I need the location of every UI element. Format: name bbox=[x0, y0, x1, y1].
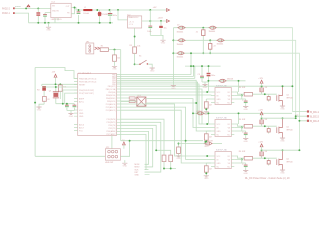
svg-text:PD1(TXD/PCINT): PD1(TXD/PCINT) bbox=[79, 93, 94, 95]
svg-text:+12V: +12V bbox=[258, 142, 263, 144]
svg-text:LM2576S-5: LM2576S-5 bbox=[51, 19, 63, 21]
junction bbox=[66, 103, 68, 105]
junction bbox=[261, 85, 263, 87]
wire to block3 pin2 bbox=[121, 107, 211, 159]
junction bbox=[185, 140, 187, 142]
svg-text:1N4004: 1N4004 bbox=[217, 44, 224, 46]
svg-text:10k: 10k bbox=[117, 58, 120, 60]
pad B_DC-2 bbox=[307, 115, 309, 117]
diode D6 bbox=[177, 52, 185, 55]
junction bbox=[134, 36, 136, 38]
gate zener small bbox=[268, 94, 270, 101]
junction bbox=[207, 112, 209, 114]
svg-text:R5: R5 bbox=[130, 45, 132, 47]
junction bbox=[25, 7, 27, 9]
svg-text:GND: GND bbox=[79, 116, 84, 118]
svg-text:100u: 100u bbox=[113, 15, 117, 17]
svg-text:RESET: RESET bbox=[79, 84, 86, 86]
resistor R9 bbox=[169, 155, 173, 161]
junction bbox=[207, 80, 209, 82]
ground bbox=[39, 104, 44, 106]
svg-text:1N4004: 1N4004 bbox=[177, 57, 184, 59]
svg-text:RL_DC Power Driver - Custom Se: RL_DC Power Driver - Custom Serie (c), 2… bbox=[245, 177, 290, 180]
wire row2 bbox=[173, 39, 240, 41]
resistor R4 bbox=[41, 84, 43, 86]
polarity mark bbox=[27, 5, 30, 7]
junction bbox=[264, 93, 266, 95]
supply +5V arrow up bbox=[123, 142, 126, 145]
junction bbox=[99, 22, 101, 24]
ground bbox=[122, 163, 127, 167]
junction bbox=[78, 9, 80, 11]
svg-text:PC1(ADC1): PC1(ADC1) bbox=[106, 106, 116, 109]
svg-text:GND/ON: GND/ON bbox=[52, 10, 60, 12]
svg-text:Z2: Z2 bbox=[214, 46, 216, 48]
svg-text:AREF: AREF bbox=[79, 97, 85, 100]
svg-text:1N4004: 1N4004 bbox=[209, 31, 216, 33]
wire VIN row bbox=[15, 7, 51, 9]
svg-text:R6 10R: R6 10R bbox=[239, 87, 246, 89]
junction bbox=[160, 20, 162, 22]
ground bbox=[150, 68, 155, 72]
svg-text:IRF540: IRF540 bbox=[286, 97, 292, 99]
diode D3 bbox=[209, 26, 217, 29]
junction bbox=[190, 52, 192, 54]
svg-text:PD7(AIN1): PD7(AIN1) bbox=[107, 133, 117, 136]
junction bbox=[172, 52, 174, 54]
junction bbox=[241, 95, 243, 97]
ground bbox=[68, 113, 73, 117]
cap electrolytic C10 bbox=[207, 73, 211, 77]
svg-text:PB1(OC1A): PB1(OC1A) bbox=[106, 88, 116, 91]
wire caps gnd bbox=[150, 35, 163, 39]
wire opto out2 to block2 pin3 bbox=[146, 103, 211, 131]
flyback diode vertical bbox=[261, 86, 263, 94]
svg-text:PB3(MOSI): PB3(MOSI) bbox=[106, 95, 116, 97]
svg-text:power: power bbox=[15, 5, 21, 8]
regulator IC4 box bbox=[51, 3, 71, 17]
crystal Q1 bbox=[42, 87, 78, 104]
wire upper pin row4 bbox=[121, 80, 197, 103]
capacitor C4 bbox=[109, 10, 111, 23]
capacitor C2 bbox=[45, 13, 51, 23]
junction bbox=[170, 168, 172, 170]
svg-text:Z1: Z1 bbox=[196, 31, 198, 33]
junction bbox=[195, 102, 197, 104]
junction bbox=[109, 9, 111, 11]
junction bbox=[62, 103, 64, 105]
resistor R2 bbox=[114, 50, 116, 55]
junction bbox=[172, 39, 174, 41]
wire ISP to reset bbox=[120, 141, 129, 157]
ground bbox=[112, 66, 117, 70]
diode D7 bbox=[186, 143, 205, 145]
ground bbox=[36, 107, 41, 111]
svg-text:AVR-ISP: AVR-ISP bbox=[105, 161, 114, 164]
pin labels left column bbox=[79, 77, 97, 132]
junction bbox=[78, 22, 80, 24]
wire to block1 pin1 bbox=[121, 91, 211, 93]
diode D10 bbox=[196, 112, 204, 115]
svg-text:PD5(T1): PD5(T1) bbox=[109, 128, 117, 130]
dc-dc bottom pin wire bbox=[134, 28, 136, 47]
resistor R10 + gnd bbox=[178, 144, 180, 148]
arrows bbox=[95, 47, 100, 50]
wire to block2 pin1 bbox=[121, 89, 211, 124]
wire to ISP row4 bbox=[121, 122, 161, 172]
junction bbox=[295, 117, 297, 119]
svg-text:PD0(RXD/PCINT): PD0(RXD/PCINT) bbox=[79, 90, 94, 92]
wire to R8 top bbox=[121, 119, 164, 155]
svg-text:R4: R4 bbox=[37, 89, 39, 91]
ground bbox=[204, 82, 206, 84]
wire to ISP row2 bbox=[121, 128, 153, 167]
svg-text:ADC6: ADC6 bbox=[79, 123, 84, 126]
svg-text:PC2(ADC2): PC2(ADC2) bbox=[106, 109, 116, 112]
gate wire + resistor bbox=[234, 92, 244, 94]
svg-text:out2: out2 bbox=[295, 113, 298, 116]
svg-text:Q1: Q1 bbox=[49, 90, 52, 92]
svg-text:+5V2: +5V2 bbox=[158, 17, 164, 19]
svg-text:100uH: 100uH bbox=[83, 13, 89, 15]
capacitor C9 bbox=[200, 76, 204, 78]
right pin stubs bbox=[117, 75, 121, 135]
junction bbox=[282, 85, 284, 87]
svg-text:IC1 MEGA8-P: IC1 MEGA8-P bbox=[78, 72, 92, 75]
right pin stubs bbox=[231, 92, 234, 103]
+12V arrow ch1 bbox=[260, 80, 263, 83]
svg-text:B_DC-3: B_DC-3 bbox=[310, 120, 319, 123]
svg-text:+12V: +12V bbox=[258, 110, 263, 112]
wire via node to R9 bbox=[121, 125, 171, 155]
junction bbox=[209, 52, 211, 54]
wire block1 aux diode row bbox=[208, 81, 245, 92]
ground bbox=[176, 156, 181, 160]
svg-text:PD4(T0): PD4(T0) bbox=[109, 125, 117, 127]
junction bbox=[298, 120, 300, 122]
svg-text:PB7(XTAL2/TOSC2): PB7(XTAL2/TOSC2) bbox=[79, 80, 97, 83]
junction bbox=[201, 65, 203, 67]
svg-text:+5V: +5V bbox=[153, 7, 157, 9]
diode D2 bbox=[177, 26, 185, 29]
pin labels right column bbox=[106, 74, 116, 136]
wire reset row bbox=[121, 140, 203, 142]
svg-text:PB0(ICP): PB0(ICP) bbox=[108, 86, 116, 88]
diode D1 bbox=[99, 10, 101, 23]
wire upper pin row2 bbox=[121, 66, 194, 76]
junction bbox=[163, 168, 165, 170]
svg-text:PD2(INT0): PD2(INT0) bbox=[107, 119, 116, 121]
svg-text:1N4004: 1N4004 bbox=[177, 44, 184, 46]
svg-text:GND: GND bbox=[79, 113, 84, 115]
junction bbox=[55, 83, 57, 85]
svg-text:PD3(INT1): PD3(INT1) bbox=[107, 122, 116, 124]
ground bbox=[243, 106, 248, 110]
wire OUT bbox=[71, 8, 83, 11]
wire ch1 +12V top rail bbox=[121, 85, 293, 87]
svg-text:PB5(SCK): PB5(SCK) bbox=[107, 101, 116, 103]
junction bbox=[205, 108, 207, 110]
junction bbox=[238, 80, 240, 82]
capacitors C6 C7 bbox=[56, 90, 78, 113]
svg-text:PAD2-2: PAD2-2 bbox=[2, 8, 11, 11]
svg-text:PC5: PC5 bbox=[79, 130, 83, 132]
wire upper pin row6 bbox=[121, 84, 202, 124]
+12V arrow ch2 bbox=[260, 112, 263, 115]
junction bbox=[34, 102, 36, 104]
wire to block3 pin1 bbox=[121, 100, 137, 102]
junction bbox=[117, 9, 119, 11]
svg-text:Q1: Q1 bbox=[286, 95, 289, 97]
svg-text:4k7: 4k7 bbox=[209, 105, 212, 107]
junction bbox=[37, 7, 39, 9]
junction bbox=[202, 52, 204, 54]
junction bbox=[192, 65, 194, 67]
wire to block3 pin3 bbox=[121, 110, 211, 163]
junction bbox=[44, 22, 46, 24]
svg-text:10u: 10u bbox=[164, 27, 167, 29]
junction bbox=[190, 65, 192, 67]
mosfet Q bbox=[277, 86, 283, 105]
svg-text:PB6(XTAL1/TOSC1): PB6(XTAL1/TOSC1) bbox=[79, 77, 97, 80]
svg-text:1N4148: 1N4148 bbox=[196, 111, 202, 113]
ground bbox=[202, 84, 207, 88]
junction bbox=[238, 112, 240, 114]
wire ch3 +12V rail bbox=[262, 149, 300, 151]
wire block2 aux diode row bbox=[193, 113, 292, 124]
inductor L1 bbox=[83, 9, 92, 11]
junction bbox=[204, 141, 206, 143]
wire to DC-DC bbox=[118, 10, 128, 20]
capacitor C1 bbox=[37, 8, 39, 22]
wire upper pin row3 bbox=[121, 66, 195, 78]
wire to ISP row1 bbox=[121, 131, 149, 164]
header JP2 AVR-ISP bbox=[105, 149, 120, 161]
junction bbox=[149, 9, 151, 11]
junction bbox=[298, 149, 300, 151]
wire reset down bbox=[120, 50, 122, 141]
junction bbox=[129, 140, 131, 142]
wire +5V rail top bbox=[92, 9, 166, 11]
ground bbox=[204, 112, 209, 116]
svg-text:10k: 10k bbox=[137, 45, 140, 47]
svg-text:ADC7: ADC7 bbox=[79, 126, 84, 129]
ground bbox=[48, 23, 50, 27]
ground bbox=[160, 40, 165, 44]
capacitor bbox=[245, 99, 247, 106]
wire FB bbox=[71, 8, 74, 14]
wire ch2 +12V rail bbox=[262, 117, 296, 119]
wire upper pin row1 bbox=[121, 53, 191, 74]
svg-text:C8: C8 bbox=[47, 99, 49, 101]
svg-text:PAD2-1: PAD2-1 bbox=[2, 12, 11, 15]
ground bbox=[46, 27, 51, 31]
ground bbox=[280, 106, 285, 110]
pad B_DC-1 bbox=[307, 110, 309, 112]
ground rail wire bbox=[29, 22, 114, 24]
svg-text:PD6(AIN0): PD6(AIN0) bbox=[107, 130, 117, 133]
junction bbox=[74, 7, 76, 9]
svg-text:C9: C9 bbox=[198, 74, 200, 76]
resistor left low bbox=[206, 99, 211, 102]
svg-text:1N4004: 1N4004 bbox=[177, 31, 184, 33]
capacitor C5 bbox=[149, 10, 151, 35]
wire row bbox=[42, 83, 78, 85]
regulator bottom pin wire bbox=[55, 18, 58, 23]
svg-text:PB2(SS): PB2(SS) bbox=[108, 92, 116, 94]
svg-text:PC0(ADC0): PC0(ADC0) bbox=[106, 103, 116, 106]
wire to block1 pin2 bbox=[121, 94, 211, 97]
wire upper pin row5 bbox=[121, 82, 198, 113]
capacitor C6 tantal bbox=[160, 21, 162, 35]
junction bbox=[48, 22, 50, 24]
header JP1 bbox=[86, 43, 94, 54]
dc-dc converter IC2 box bbox=[128, 16, 142, 28]
zener Z2 vertical bbox=[209, 39, 211, 41]
left pin stubs bbox=[74, 79, 78, 131]
svg-text:PB4(MISO): PB4(MISO) bbox=[106, 98, 116, 100]
svg-text:AVCC: AVCC bbox=[79, 100, 85, 103]
supply +5V arrow up bbox=[54, 74, 57, 77]
svg-text:D2: D2 bbox=[177, 25, 179, 27]
svg-text:IC3 TLP_GD: IC3 TLP_GD bbox=[216, 86, 227, 88]
supply +5V arrow bbox=[167, 9, 170, 12]
svg-text:GND: GND bbox=[135, 175, 140, 177]
zener vertical bbox=[202, 27, 204, 29]
junction bbox=[96, 9, 98, 11]
svg-text:B_DC-2: B_DC-2 bbox=[310, 116, 319, 119]
svg-text:+12V: +12V bbox=[258, 78, 263, 80]
junction bbox=[37, 22, 39, 24]
capacitor C8 bbox=[43, 91, 45, 105]
capacitor C3 bbox=[78, 10, 80, 23]
svg-text:100n: 100n bbox=[147, 31, 151, 33]
wire opto out to block2 pin2 bbox=[146, 99, 211, 128]
junction bbox=[208, 65, 210, 67]
left pin stubs bbox=[211, 92, 215, 103]
wire DC-DC out bbox=[142, 20, 167, 22]
wire row1 bbox=[173, 27, 240, 29]
junction bbox=[192, 112, 194, 114]
svg-text:GND: GND bbox=[217, 99, 222, 101]
svg-text:100u: 100u bbox=[211, 75, 215, 77]
pad B_DC-3 bbox=[307, 120, 309, 122]
junction bbox=[149, 20, 151, 22]
svg-text:VCC: VCC bbox=[79, 110, 84, 112]
ISP label rows bbox=[135, 164, 140, 176]
svg-text:D8: D8 bbox=[265, 87, 267, 89]
wire loop into ISP bbox=[35, 155, 105, 157]
resistor R3 bbox=[58, 85, 62, 91]
resistor R8 bbox=[162, 155, 166, 161]
junction bbox=[114, 49, 116, 51]
junction bbox=[206, 91, 208, 93]
diode D5 bbox=[216, 39, 224, 42]
junction bbox=[134, 63, 136, 65]
junction bbox=[109, 22, 111, 24]
diode D9 bbox=[218, 79, 226, 82]
svg-text:NMA0505SC: NMA0505SC bbox=[128, 16, 139, 19]
junction bbox=[295, 115, 297, 117]
switch S1 bbox=[135, 63, 140, 65]
junction bbox=[197, 112, 199, 114]
wire reset net right bbox=[179, 141, 186, 144]
driver block IC3 bbox=[215, 88, 231, 105]
junction bbox=[59, 83, 61, 85]
wire row3 bbox=[173, 52, 240, 54]
junction bbox=[155, 149, 157, 151]
+12V arrow ch3 bbox=[260, 144, 263, 147]
wire big left loop bbox=[35, 68, 78, 157]
supply +5V2 arrow bbox=[167, 20, 170, 23]
junction bbox=[178, 143, 180, 145]
wire GND input row bbox=[15, 13, 29, 23]
ground bbox=[124, 160, 126, 163]
wire to ISP row3 bbox=[121, 134, 146, 169]
middle gnd net bbox=[185, 66, 221, 76]
svg-text:OUT: OUT bbox=[66, 6, 70, 8]
mcu bottom pin wire bbox=[111, 136, 113, 149]
ground bbox=[171, 86, 176, 90]
diode D4 bbox=[177, 39, 185, 42]
svg-text:B_DC-1: B_DC-1 bbox=[310, 111, 319, 114]
+12V rail vertical bbox=[172, 28, 174, 85]
junction bbox=[55, 86, 57, 88]
svg-text:1N4148: 1N4148 bbox=[227, 79, 233, 81]
svg-text:R1: R1 bbox=[101, 46, 103, 48]
